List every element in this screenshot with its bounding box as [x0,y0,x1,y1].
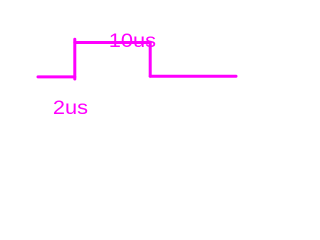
svg-text:10us: 10us [109,30,156,52]
pulse waveform drawing [0,0,250,155]
svg-text:2us: 2us [53,97,88,119]
wire baseline right segment [150,75,236,78]
wire baseline left segment [38,75,75,78]
wire rising edge [73,39,76,79]
wire pulse top segment [75,41,150,44]
wire falling edge [149,43,152,77]
